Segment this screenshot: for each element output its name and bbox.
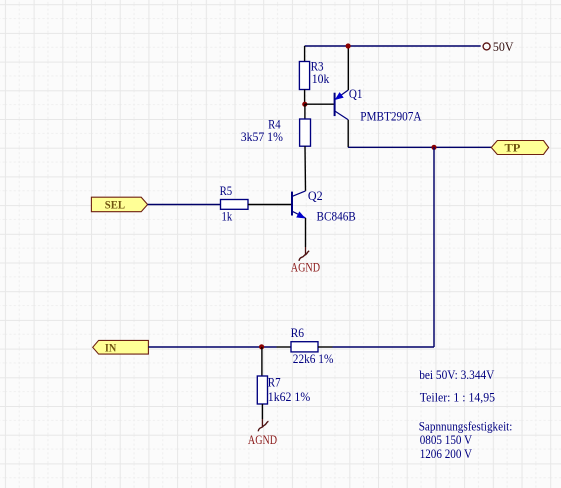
resistor R7 pin bottom: [261, 404, 263, 419]
svg-text:SEL: SEL: [105, 200, 126, 212]
svg-text:AGND: AGND: [291, 261, 320, 275]
transistor Q1 emitter diagonal: [335, 90, 348, 99]
wire junction to R7: [261, 347, 263, 376]
port IN: [93, 340, 149, 354]
transistor Q1 collector diagonal: [335, 111, 349, 120]
ground AGND wave (Q2 emitter): [299, 251, 309, 261]
power port 50V terminal circle: [483, 43, 490, 50]
wire R6 to divider vertical: [333, 346, 435, 348]
svg-text:1k62 1%: 1k62 1%: [268, 390, 310, 404]
transistor Q1 collector pin down: [347, 120, 349, 148]
svg-text:bei 50V: 3.344V: bei 50V: 3.344V: [419, 368, 494, 382]
wire IN to junction: [148, 346, 276, 348]
ground AGND stem (R7): [261, 419, 263, 427]
wire 50V rail: [305, 45, 481, 47]
resistor R5 body: [221, 200, 249, 210]
resistor R7 body: [257, 376, 267, 404]
svg-text:0805 150 V: 0805 150 V: [420, 433, 473, 447]
svg-text:TP: TP: [505, 143, 521, 155]
node junction IN R6 R7: [259, 344, 264, 349]
svg-text:AGND: AGND: [248, 433, 277, 447]
svg-text:Sapnnungsfestigkeit:: Sapnnungsfestigkeit:: [419, 420, 513, 434]
wire R5 to Q2 base: [248, 204, 292, 206]
port TP: [491, 141, 548, 155]
resistor R3 pin bottom: [304, 90, 306, 105]
svg-text:3k57 1%: 3k57 1%: [241, 130, 283, 144]
svg-text:R7: R7: [268, 375, 281, 389]
wire divider vertical: [433, 147, 435, 347]
svg-text:1206 200 V: 1206 200 V: [420, 447, 472, 461]
wire SEL to R5: [148, 204, 221, 206]
svg-text:R6: R6: [291, 326, 305, 340]
wire TP line: [348, 146, 491, 148]
resistor R3 body: [299, 62, 309, 90]
resistor R4 pin bottom / wire to Q2 collector: [304, 146, 307, 191]
resistor R4 pin top: [304, 104, 306, 119]
svg-text:22k6 1%: 22k6 1%: [293, 352, 334, 366]
transistor Q2 collector diagonal: [292, 191, 306, 197]
resistor R6 pin right: [318, 346, 333, 348]
node junction R3 R4 Q1-base: [302, 102, 307, 107]
transistor Q2 emitter arrow (NPN): [297, 212, 305, 218]
ground AGND stem (Q2 emitter): [305, 247, 307, 255]
node junction 50V rail Q1 emitter: [346, 43, 351, 48]
port SEL: [91, 197, 147, 212]
transistor Q1 emitter arrow (PNP): [335, 93, 343, 100]
wire base of Q1: [305, 103, 335, 105]
node junction TP divider: [431, 145, 436, 150]
svg-text:BC846B: BC846B: [317, 209, 356, 223]
svg-text:R5: R5: [220, 184, 233, 198]
transistor Q2 base bar: [291, 192, 293, 216]
svg-text:10k: 10k: [312, 72, 330, 86]
resistor R6 pin left: [277, 346, 292, 348]
svg-text:PMBT2907A: PMBT2907A: [360, 110, 421, 124]
svg-text:Q2: Q2: [308, 189, 323, 203]
transistor Q1 base bar: [334, 93, 336, 116]
svg-text:50V: 50V: [493, 40, 514, 54]
ground AGND wave (R7): [258, 421, 268, 431]
svg-text:Q1: Q1: [349, 87, 363, 101]
resistor R3 pin top: [304, 46, 306, 62]
svg-text:1k: 1k: [222, 210, 233, 224]
resistor R4 body: [300, 119, 311, 146]
svg-text:IN: IN: [105, 342, 117, 354]
transistor Q2 emitter diagonal: [292, 211, 306, 218]
transistor Q1 emitter pin to rail: [347, 46, 349, 90]
resistor R6 body: [291, 342, 318, 352]
svg-text:Teiler: 1 : 14,95: Teiler: 1 : 14,95: [420, 390, 495, 404]
transistor Q2 emitter pin down: [305, 218, 307, 247]
